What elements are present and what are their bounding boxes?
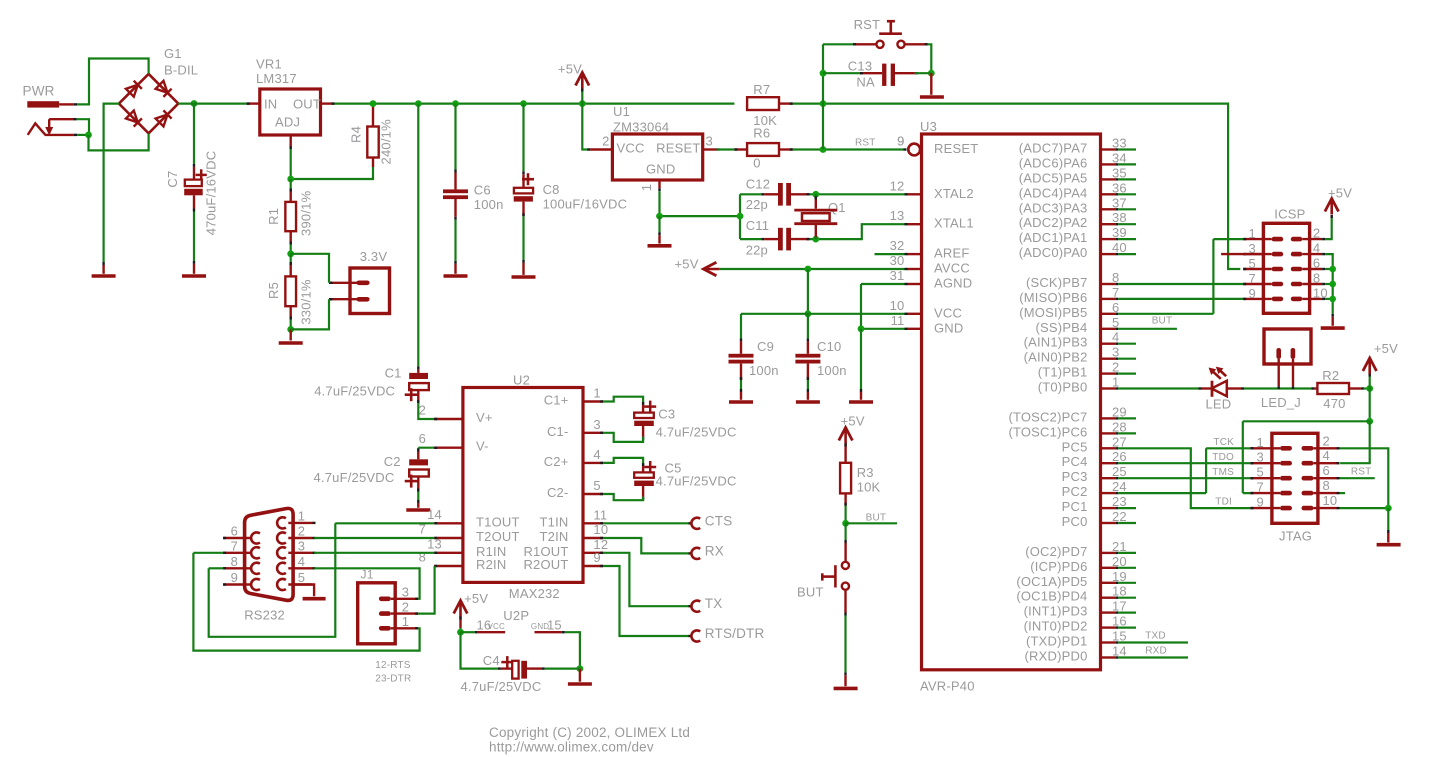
svg-text:20: 20 bbox=[1112, 554, 1127, 569]
svg-text:C3: C3 bbox=[658, 407, 675, 422]
svg-text:34: 34 bbox=[1112, 150, 1127, 165]
svg-text:T2OUT: T2OUT bbox=[476, 529, 520, 544]
svg-text:27: 27 bbox=[1112, 434, 1127, 449]
svg-text:16: 16 bbox=[1112, 614, 1127, 629]
svg-text:PC5: PC5 bbox=[1062, 439, 1088, 454]
svg-text:14: 14 bbox=[427, 507, 442, 522]
svg-text:8: 8 bbox=[1313, 271, 1320, 286]
svg-text:C4: C4 bbox=[483, 653, 500, 668]
svg-text:ICSP: ICSP bbox=[1274, 207, 1305, 222]
svg-text:3.3V: 3.3V bbox=[360, 249, 388, 264]
svg-text:6: 6 bbox=[1112, 300, 1119, 315]
svg-text:6: 6 bbox=[1313, 256, 1320, 271]
svg-text:R3: R3 bbox=[857, 465, 874, 480]
svg-text:C10: C10 bbox=[817, 339, 841, 354]
svg-text:+5V: +5V bbox=[841, 413, 865, 428]
svg-text:(SS)PB4: (SS)PB4 bbox=[1036, 320, 1088, 335]
svg-text:100n: 100n bbox=[749, 363, 779, 378]
svg-text:(OC1A)PD5: (OC1A)PD5 bbox=[1016, 574, 1087, 589]
svg-text:U2: U2 bbox=[513, 373, 530, 388]
svg-text:10: 10 bbox=[890, 298, 905, 313]
svg-text:NA: NA bbox=[856, 75, 875, 90]
svg-text:B-DIL: B-DIL bbox=[164, 63, 198, 78]
svg-text:(ADC7)PA7: (ADC7)PA7 bbox=[1019, 141, 1088, 156]
svg-text:RST: RST bbox=[854, 17, 881, 32]
svg-text:+5V: +5V bbox=[464, 591, 488, 606]
svg-text:9: 9 bbox=[231, 570, 238, 585]
svg-text:22p: 22p bbox=[746, 242, 768, 257]
svg-text:JTAG: JTAG bbox=[1279, 529, 1312, 544]
svg-text:4.7uF/25VDC: 4.7uF/25VDC bbox=[314, 470, 395, 485]
svg-text:R7: R7 bbox=[753, 82, 770, 97]
svg-text:8: 8 bbox=[1112, 270, 1119, 285]
svg-text:14: 14 bbox=[1112, 644, 1127, 659]
svg-text:(ADC6)PA6: (ADC6)PA6 bbox=[1019, 155, 1088, 170]
svg-text:5: 5 bbox=[1249, 256, 1256, 271]
svg-text:ZM33064: ZM33064 bbox=[613, 120, 669, 135]
svg-text:3: 3 bbox=[402, 585, 409, 600]
svg-text:GND: GND bbox=[646, 162, 676, 177]
svg-text:T2IN: T2IN bbox=[540, 529, 569, 544]
svg-text:3: 3 bbox=[1257, 450, 1264, 465]
svg-text:29: 29 bbox=[1112, 404, 1127, 419]
svg-text:BUT: BUT bbox=[1152, 316, 1173, 327]
svg-text:AREF: AREF bbox=[934, 246, 969, 261]
svg-text:7: 7 bbox=[231, 539, 238, 554]
svg-text:(TOSC2)PC7: (TOSC2)PC7 bbox=[1008, 409, 1087, 424]
svg-text:15: 15 bbox=[547, 618, 562, 633]
svg-text:(T1)PB1: (T1)PB1 bbox=[1038, 365, 1088, 380]
svg-text:V-: V- bbox=[476, 439, 489, 454]
svg-text:(ADC4)PA4: (ADC4)PA4 bbox=[1019, 185, 1088, 200]
svg-text:RX: RX bbox=[705, 543, 724, 558]
svg-text:R2: R2 bbox=[1322, 368, 1339, 383]
svg-text:2: 2 bbox=[1323, 433, 1330, 448]
svg-text:BUT: BUT bbox=[866, 513, 887, 524]
svg-text:36: 36 bbox=[1112, 180, 1127, 195]
svg-text:40: 40 bbox=[1112, 240, 1127, 255]
svg-text:C2-: C2- bbox=[547, 485, 569, 500]
svg-text:C1: C1 bbox=[385, 366, 402, 381]
svg-text:1: 1 bbox=[593, 386, 600, 401]
svg-text:T1OUT: T1OUT bbox=[476, 514, 520, 529]
svg-text:22p: 22p bbox=[746, 197, 768, 212]
svg-text:MAX232: MAX232 bbox=[509, 586, 560, 601]
svg-text:C1-: C1- bbox=[547, 424, 569, 439]
svg-text:11: 11 bbox=[593, 507, 607, 522]
svg-text:+5V: +5V bbox=[675, 256, 699, 271]
svg-text:VCC: VCC bbox=[488, 622, 506, 631]
svg-text:(AIN1)PB3: (AIN1)PB3 bbox=[1024, 335, 1088, 350]
svg-text:5: 5 bbox=[1257, 465, 1264, 480]
svg-text:(SCK)PB7: (SCK)PB7 bbox=[1026, 275, 1088, 290]
svg-text:LED_J: LED_J bbox=[1261, 395, 1301, 410]
svg-text:37: 37 bbox=[1112, 195, 1127, 210]
svg-text:R1: R1 bbox=[266, 208, 281, 225]
svg-text:9: 9 bbox=[897, 134, 904, 149]
svg-text:IN: IN bbox=[264, 96, 277, 111]
svg-text:17: 17 bbox=[1112, 599, 1127, 614]
svg-text:470uF/16VDC: 470uF/16VDC bbox=[204, 151, 219, 236]
svg-text:C11: C11 bbox=[746, 218, 769, 233]
svg-text:C12: C12 bbox=[746, 176, 770, 191]
svg-text:1: 1 bbox=[1112, 375, 1119, 390]
svg-text:C8: C8 bbox=[543, 182, 560, 197]
svg-text:100n: 100n bbox=[817, 363, 847, 378]
svg-text:VCC: VCC bbox=[934, 305, 962, 320]
svg-text:PWR: PWR bbox=[23, 84, 55, 99]
svg-text:2: 2 bbox=[1112, 360, 1119, 375]
svg-text:C2: C2 bbox=[384, 454, 401, 469]
svg-text:RST: RST bbox=[855, 137, 876, 148]
svg-text:LM317: LM317 bbox=[256, 71, 297, 86]
svg-text:+5V: +5V bbox=[558, 61, 582, 76]
svg-text:32: 32 bbox=[890, 238, 905, 253]
svg-text:PC3: PC3 bbox=[1062, 469, 1088, 484]
svg-text:VR1: VR1 bbox=[256, 57, 282, 72]
svg-text:11: 11 bbox=[891, 313, 905, 328]
svg-text:5: 5 bbox=[593, 478, 600, 493]
svg-text:R2OUT: R2OUT bbox=[523, 557, 568, 572]
svg-text:390/1%: 390/1% bbox=[299, 190, 314, 236]
svg-text:TX: TX bbox=[705, 596, 723, 611]
svg-text:AVR-P40: AVR-P40 bbox=[920, 679, 975, 694]
svg-text:7: 7 bbox=[1249, 271, 1256, 286]
svg-text:(INT1)PD3: (INT1)PD3 bbox=[1024, 604, 1088, 619]
svg-text:5: 5 bbox=[1112, 315, 1119, 330]
svg-text:C6: C6 bbox=[474, 183, 491, 198]
svg-text:6: 6 bbox=[231, 524, 238, 539]
svg-text:2: 2 bbox=[402, 599, 409, 614]
svg-text:30: 30 bbox=[890, 253, 905, 268]
svg-text:9: 9 bbox=[1257, 495, 1264, 510]
svg-text:PC2: PC2 bbox=[1062, 484, 1088, 499]
svg-text:GND: GND bbox=[934, 320, 964, 335]
svg-text:RTS/DTR: RTS/DTR bbox=[705, 626, 765, 641]
svg-text:35: 35 bbox=[1112, 165, 1127, 180]
svg-text:+5V: +5V bbox=[1374, 341, 1398, 356]
svg-text:U3: U3 bbox=[920, 119, 937, 134]
svg-text:4.7uF/25VDC: 4.7uF/25VDC bbox=[656, 425, 737, 440]
svg-text:R6: R6 bbox=[753, 126, 770, 141]
svg-text:G1: G1 bbox=[164, 46, 182, 61]
svg-text:http://www.olimex.com/dev: http://www.olimex.com/dev bbox=[489, 740, 654, 755]
svg-text:PC1: PC1 bbox=[1062, 499, 1088, 514]
svg-text:ADJ: ADJ bbox=[275, 115, 300, 130]
svg-text:(MOSI)PB5: (MOSI)PB5 bbox=[1019, 305, 1087, 320]
svg-text:4: 4 bbox=[1112, 330, 1119, 345]
svg-text:1: 1 bbox=[298, 509, 305, 524]
svg-text:TDI: TDI bbox=[1215, 497, 1232, 508]
svg-text:4: 4 bbox=[593, 447, 600, 462]
svg-text:(ADC3)PA3: (ADC3)PA3 bbox=[1019, 200, 1088, 215]
svg-text:100n: 100n bbox=[474, 197, 504, 212]
svg-text:V+: V+ bbox=[476, 410, 493, 425]
svg-text:(INT0)PD2: (INT0)PD2 bbox=[1024, 619, 1088, 634]
svg-text:39: 39 bbox=[1112, 225, 1127, 240]
svg-text:6: 6 bbox=[1323, 463, 1330, 478]
svg-text:31: 31 bbox=[890, 268, 905, 283]
svg-text:1: 1 bbox=[1249, 226, 1256, 241]
svg-text:AVCC: AVCC bbox=[934, 261, 970, 276]
svg-text:3: 3 bbox=[593, 417, 600, 432]
svg-text:VCC: VCC bbox=[617, 141, 645, 156]
svg-text:BUT: BUT bbox=[797, 585, 824, 600]
svg-text:4: 4 bbox=[1313, 241, 1320, 256]
svg-text:330/1%: 330/1% bbox=[299, 279, 314, 325]
svg-text:RXD: RXD bbox=[1145, 646, 1167, 657]
svg-text:25: 25 bbox=[1112, 464, 1127, 479]
svg-text:12: 12 bbox=[890, 178, 905, 193]
svg-text:(ADC1)PA1: (ADC1)PA1 bbox=[1019, 230, 1088, 245]
svg-text:8: 8 bbox=[1323, 478, 1330, 493]
svg-text:33: 33 bbox=[1112, 136, 1127, 151]
svg-text:22: 22 bbox=[1112, 509, 1127, 524]
svg-text:(TOSC1)PC6: (TOSC1)PC6 bbox=[1008, 424, 1087, 439]
svg-text:6: 6 bbox=[419, 431, 426, 446]
svg-text:3: 3 bbox=[1112, 345, 1119, 360]
svg-text:240/1%: 240/1% bbox=[379, 119, 394, 165]
svg-text:7: 7 bbox=[1112, 285, 1119, 300]
svg-text:(OC1B)PD4: (OC1B)PD4 bbox=[1016, 589, 1087, 604]
svg-text:2: 2 bbox=[419, 403, 426, 418]
svg-text:TDO: TDO bbox=[1212, 452, 1234, 463]
svg-text:AGND: AGND bbox=[934, 276, 972, 291]
svg-text:(ADC0)PA0: (ADC0)PA0 bbox=[1019, 245, 1088, 260]
svg-text:3: 3 bbox=[298, 539, 305, 554]
svg-text:RESET: RESET bbox=[656, 141, 700, 156]
svg-text:23-DTR: 23-DTR bbox=[375, 674, 411, 685]
svg-text:28: 28 bbox=[1112, 419, 1127, 434]
svg-text:12-RTS: 12-RTS bbox=[375, 660, 411, 671]
svg-text:R5: R5 bbox=[266, 282, 281, 299]
svg-text:3: 3 bbox=[706, 134, 713, 149]
svg-text:26: 26 bbox=[1112, 449, 1127, 464]
svg-text:(ICP)PD6: (ICP)PD6 bbox=[1030, 559, 1087, 574]
svg-text:10: 10 bbox=[1323, 493, 1338, 508]
svg-text:C13: C13 bbox=[848, 58, 872, 73]
svg-text:4.7uF/25VDC: 4.7uF/25VDC bbox=[656, 474, 737, 489]
svg-text:13: 13 bbox=[890, 208, 905, 223]
svg-text:LED: LED bbox=[1206, 397, 1232, 412]
svg-text:100uF/16VDC: 100uF/16VDC bbox=[543, 197, 628, 212]
svg-text:TCK: TCK bbox=[1213, 437, 1234, 448]
svg-text:1: 1 bbox=[639, 184, 654, 191]
svg-text:470: 470 bbox=[1323, 396, 1345, 411]
svg-text:U1: U1 bbox=[613, 104, 630, 119]
svg-text:CTS: CTS bbox=[705, 513, 733, 528]
svg-text:T1IN: T1IN bbox=[540, 514, 569, 529]
svg-text:(T0)PB0: (T0)PB0 bbox=[1038, 380, 1088, 395]
svg-text:15: 15 bbox=[1112, 629, 1127, 644]
svg-text:(ADC5)PA5: (ADC5)PA5 bbox=[1019, 170, 1088, 185]
svg-text:(OC2)PD7: (OC2)PD7 bbox=[1025, 544, 1087, 559]
svg-text:21: 21 bbox=[1112, 539, 1127, 554]
svg-text:4.7uF/25VDC: 4.7uF/25VDC bbox=[314, 384, 395, 399]
svg-text:PC0: PC0 bbox=[1062, 514, 1088, 529]
svg-text:(MISO)PB6: (MISO)PB6 bbox=[1019, 290, 1087, 305]
svg-text:RST: RST bbox=[1351, 467, 1372, 478]
svg-text:2: 2 bbox=[602, 134, 609, 149]
svg-text:C7: C7 bbox=[165, 171, 180, 188]
svg-text:R4: R4 bbox=[348, 126, 363, 143]
svg-text:2: 2 bbox=[298, 524, 305, 539]
svg-text:(ADC2)PA2: (ADC2)PA2 bbox=[1019, 215, 1088, 230]
svg-text:J1: J1 bbox=[361, 568, 374, 582]
svg-text:(AIN0)PB2: (AIN0)PB2 bbox=[1024, 350, 1088, 365]
svg-text:R2IN: R2IN bbox=[476, 557, 506, 572]
svg-text:OUT: OUT bbox=[293, 96, 321, 111]
svg-text:XTAL1: XTAL1 bbox=[934, 216, 974, 231]
svg-text:XTAL2: XTAL2 bbox=[934, 186, 974, 201]
svg-text:RS232: RS232 bbox=[244, 608, 285, 623]
svg-text:4: 4 bbox=[298, 554, 305, 569]
svg-text:18: 18 bbox=[1112, 584, 1127, 599]
svg-text:24: 24 bbox=[1112, 479, 1127, 494]
svg-text:Copyright (C) 2002, OLIMEX Ltd: Copyright (C) 2002, OLIMEX Ltd bbox=[489, 725, 690, 740]
svg-text:(TXD)PD1: (TXD)PD1 bbox=[1026, 634, 1088, 649]
svg-text:RESET: RESET bbox=[934, 141, 978, 156]
svg-text:9: 9 bbox=[593, 550, 600, 565]
svg-text:+5V: +5V bbox=[1328, 186, 1352, 201]
svg-text:TXD: TXD bbox=[1145, 631, 1166, 642]
svg-text:C1+: C1+ bbox=[544, 393, 569, 408]
svg-text:10K: 10K bbox=[857, 480, 881, 495]
svg-text:PC4: PC4 bbox=[1062, 454, 1088, 469]
svg-text:7: 7 bbox=[1257, 480, 1264, 495]
svg-text:2: 2 bbox=[1313, 226, 1320, 241]
svg-text:U2P: U2P bbox=[503, 608, 529, 623]
svg-text:TMS: TMS bbox=[1212, 467, 1234, 478]
svg-text:38: 38 bbox=[1112, 210, 1127, 225]
svg-text:8: 8 bbox=[231, 554, 238, 569]
svg-text:C2+: C2+ bbox=[544, 454, 569, 469]
svg-text:19: 19 bbox=[1112, 569, 1127, 584]
svg-text:9: 9 bbox=[1249, 286, 1256, 301]
svg-text:C9: C9 bbox=[757, 339, 774, 354]
svg-text:1: 1 bbox=[1257, 435, 1264, 450]
svg-text:(RXD)PD0: (RXD)PD0 bbox=[1025, 649, 1088, 664]
svg-text:4.7uF/25VDC: 4.7uF/25VDC bbox=[461, 679, 542, 694]
svg-text:1: 1 bbox=[402, 614, 409, 629]
svg-text:0: 0 bbox=[753, 156, 760, 171]
svg-text:5: 5 bbox=[298, 570, 305, 585]
svg-text:23: 23 bbox=[1112, 494, 1127, 509]
svg-text:4: 4 bbox=[1323, 448, 1330, 463]
